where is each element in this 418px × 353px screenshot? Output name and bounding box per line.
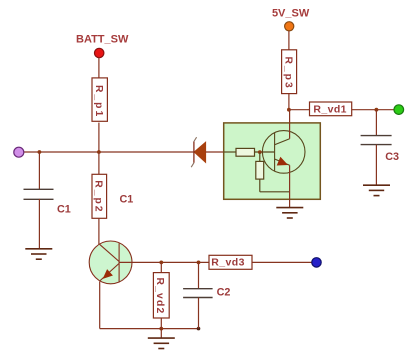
junction node A / R_p1-R_p2 <box>97 150 101 154</box>
svg-text:C1: C1 <box>57 204 71 216</box>
wire Q1 emitter down <box>99 281 101 328</box>
resistor R (base, in box) <box>236 148 255 156</box>
junction bottom rail / C2 <box>197 327 201 331</box>
wire R_vd1 to green node <box>352 109 394 111</box>
svg-text:R_p3: R_p3 <box>283 57 294 90</box>
junction base rail / R_vd2 <box>159 261 163 265</box>
capacitor C2 <box>183 289 213 298</box>
node input terminal (violet) <box>14 147 24 157</box>
wire R_p1 to node A <box>98 123 100 152</box>
transistor Q1 <box>89 241 132 284</box>
wire node A down to C1 <box>38 152 40 189</box>
wire R pulldown down <box>259 179 261 192</box>
wire C1 to ground <box>38 199 40 249</box>
resistor R_p3 <box>282 50 297 94</box>
ground under box <box>276 208 303 218</box>
wire BATT_SW to R_p1 <box>98 58 100 78</box>
ground under R_vd2 <box>148 338 175 348</box>
wire Q2 emitter to ground <box>289 165 291 207</box>
wire bottom rail <box>100 328 199 330</box>
junction base / R pulldown <box>258 150 262 154</box>
ground under C1 <box>25 249 52 259</box>
junction base rail / C2 <box>197 261 201 265</box>
wire C3 to ground <box>375 145 377 186</box>
wire R pulldown to emitter <box>260 191 290 193</box>
zener diode D1 <box>191 137 205 167</box>
wire to C3 <box>375 110 377 136</box>
resistor R_p1 <box>92 78 107 121</box>
svg-text:R_p2: R_p2 <box>92 180 103 213</box>
svg-text:R_p1: R_p1 <box>93 85 104 118</box>
resistor R_vd1 <box>310 102 352 116</box>
wire R_vd2 to bottom rail <box>160 318 162 328</box>
junction node A / C1 <box>38 150 42 154</box>
wire node A to R_p2 <box>98 152 100 174</box>
junction top rail / R_p3 <box>287 108 291 112</box>
wire junction to R_vd1 <box>289 109 309 111</box>
resistor R_vd3 <box>209 255 252 269</box>
ground under C3 <box>363 185 390 195</box>
wire 5V_SW to R_p3 <box>288 31 290 50</box>
subcircuit box (green) <box>224 123 321 199</box>
node 5V_SW terminal (orange) <box>285 22 294 31</box>
resistor R_vd2 <box>153 273 169 318</box>
wire to C2 <box>198 262 200 288</box>
resistor R_p2 <box>92 174 107 218</box>
svg-text:5V_SW: 5V_SW <box>272 7 310 19</box>
svg-text:C3: C3 <box>385 151 399 163</box>
wire to ground G2 <box>160 329 162 339</box>
wire R to Q2 base <box>255 151 275 153</box>
capacitor C3 <box>361 136 392 145</box>
wire into box <box>224 151 237 153</box>
wire R_p3 to top rail <box>288 94 290 110</box>
svg-text:R_vd2: R_vd2 <box>154 278 165 315</box>
capacitor C1 <box>24 189 54 199</box>
junction top rail / C3 <box>375 108 379 112</box>
wire main horizontal net A <box>24 151 194 153</box>
svg-text:C1: C1 <box>120 194 134 206</box>
resistor R (pulldown, in box) <box>256 161 264 179</box>
svg-text:R_vd1: R_vd1 <box>313 103 347 115</box>
wire Q2 collector to top rail <box>289 110 291 139</box>
wire Q1 base rail <box>119 261 312 263</box>
node BATT_SW terminal (red) <box>95 48 104 57</box>
transistor Q2 (in box) <box>262 131 305 174</box>
node terminal (green) <box>394 105 404 115</box>
wire C2 to bottom rail <box>198 298 200 329</box>
junction bottom rail / ground <box>159 327 163 331</box>
wire junction to R pulldown <box>259 152 261 161</box>
node output terminal (blue) <box>312 258 321 267</box>
svg-text:R_vd3: R_vd3 <box>211 256 245 268</box>
svg-text:BATT_SW: BATT_SW <box>76 34 129 46</box>
wire R_p2 to Q1 collector <box>98 219 100 245</box>
svg-text:C2: C2 <box>217 287 231 299</box>
wire zener to R inside box <box>206 151 236 153</box>
wire to R_vd2 <box>160 262 162 272</box>
